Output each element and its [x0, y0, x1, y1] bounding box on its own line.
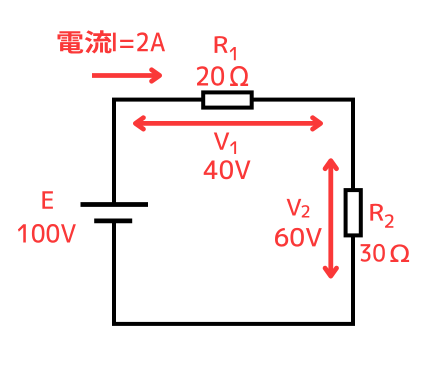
label V2 [287, 199, 310, 218]
label R2 [370, 204, 393, 228]
battery gap (white break in left wire) [111, 205, 119, 221]
label I=2A [113, 32, 165, 51]
label 100V (battery value) [18, 224, 76, 243]
resistor R2 box [346, 190, 361, 235]
label 30Ω (R2 value) [361, 244, 409, 262]
label 60V (V2 value) [275, 228, 322, 247]
label 電流 (current kanji) [57, 30, 111, 53]
label 20Ω (R1 value) [197, 66, 248, 86]
voltage arrow V1 [135, 118, 320, 129]
resistor R1 box [203, 92, 252, 107]
label R1 [215, 36, 236, 60]
label 40V (V1 value) [204, 160, 251, 179]
voltage arrow V2 [325, 161, 336, 276]
current arrow [92, 70, 160, 81]
wire loop (circuit rectangle) [114, 100, 353, 324]
battery E short plate [94, 218, 132, 223]
battery E long plate [81, 202, 149, 207]
label V1 [214, 132, 236, 154]
label E (battery) [42, 191, 52, 208]
